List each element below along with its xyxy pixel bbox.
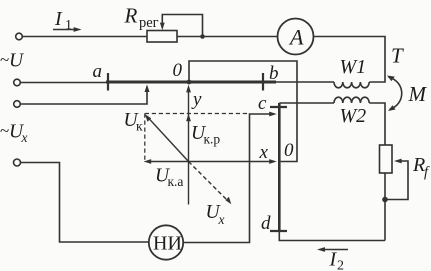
vector Ukr arrowhead — [186, 114, 191, 122]
rheostat tap arrowhead Rf — [394, 159, 402, 164]
terminal ~U phase top — [16, 33, 23, 40]
current arrow I2 — [317, 247, 348, 252]
null indicator NI circle — [149, 225, 183, 259]
tick b — [262, 73, 264, 91]
svg-text:a: a — [93, 61, 103, 82]
svg-text:к.а: к.а — [168, 174, 184, 189]
wire Rreg to ammeter — [177, 36, 277, 38]
svg-text:M: M — [408, 82, 428, 106]
svg-text:x: x — [259, 142, 269, 163]
wire slidewire to W1 — [276, 81, 334, 83]
wire ~Ux down to NI — [21, 163, 149, 243]
vector diagram — [144, 85, 277, 205]
svg-text:~: ~ — [0, 121, 9, 140]
svg-text:A: A — [288, 25, 304, 50]
svg-text:W2: W2 — [340, 105, 367, 127]
rheostat tap arrowhead Rreg — [160, 23, 165, 31]
mutual inductance arc M — [389, 77, 402, 110]
svg-text:W1: W1 — [340, 56, 367, 78]
junction dot slidewire 0 — [187, 80, 192, 85]
y axis — [188, 88, 190, 162]
wire bar top to W2 — [279, 102, 334, 104]
wire ~U second to slidewire a — [20, 82, 107, 84]
inductor W2 coil — [334, 97, 369, 103]
junction dot after Rreg — [200, 34, 205, 39]
svg-text:b: b — [269, 63, 279, 84]
wire from slider terminal to slidewire slider — [20, 89, 147, 105]
vector Uka — [148, 161, 189, 163]
svg-text:1: 1 — [65, 18, 72, 33]
slidewire a-b thick — [106, 81, 276, 84]
svg-text:0: 0 — [173, 60, 183, 81]
svg-text:0: 0 — [284, 140, 294, 161]
slider arrowhead on vertical bar — [269, 112, 277, 117]
wire A to right column — [314, 37, 386, 83]
current arrow I1 — [53, 27, 82, 32]
svg-text:x: x — [21, 130, 28, 145]
x axis — [189, 161, 273, 163]
resistor Rreg body — [147, 31, 177, 43]
projection dashed horizontal — [145, 113, 247, 115]
svg-text:R: R — [124, 4, 138, 28]
wire Rf to bottom — [384, 173, 386, 241]
vector Uk — [148, 117, 189, 161]
inductor W1 coil — [334, 82, 369, 88]
wire top from ~U to Rreg — [22, 36, 147, 38]
connecting link 0 to 0 box — [189, 61, 297, 162]
svg-text:I: I — [54, 8, 63, 30]
svg-text:x: x — [218, 212, 225, 227]
y axis lower part — [188, 162, 190, 205]
slider arrowhead on slidewire — [145, 84, 150, 92]
svg-text:~: ~ — [0, 50, 9, 69]
terminal slider lead — [14, 101, 21, 108]
svg-text:T: T — [391, 44, 404, 68]
svg-text:НИ: НИ — [153, 233, 182, 255]
tick a — [107, 73, 109, 91]
vertical slidewire bar c-d — [278, 103, 281, 232]
svg-text:U: U — [9, 51, 25, 72]
svg-text:к.р: к.р — [204, 132, 221, 147]
wire W2 to right column down — [369, 103, 385, 145]
svg-text:2: 2 — [337, 259, 344, 271]
tick d — [270, 230, 287, 232]
M arc arrowhead bottom — [388, 105, 396, 111]
svg-text:d: d — [261, 213, 271, 234]
wire NI to vertical slider lead — [183, 114, 273, 243]
tick c — [270, 106, 287, 108]
wire bar bottom to Rf loop — [279, 232, 385, 241]
resistor Rf body — [380, 145, 393, 173]
M arc arrowhead top — [387, 76, 395, 82]
projection dashed vertical — [144, 114, 146, 162]
terminal ~U second — [14, 79, 21, 86]
ammeter A circle — [278, 19, 314, 55]
svg-text:к: к — [136, 119, 143, 134]
terminal ~Ux — [14, 159, 21, 166]
junction dot Rf tap — [382, 197, 388, 203]
rheostat tap wire Rf — [385, 161, 408, 200]
svg-text:рег: рег — [139, 15, 159, 31]
vector Ux dashed — [189, 162, 229, 202]
svg-text:c: c — [258, 93, 267, 114]
svg-text:y: y — [191, 89, 202, 110]
rheostat tap wire Rreg — [162, 15, 202, 37]
